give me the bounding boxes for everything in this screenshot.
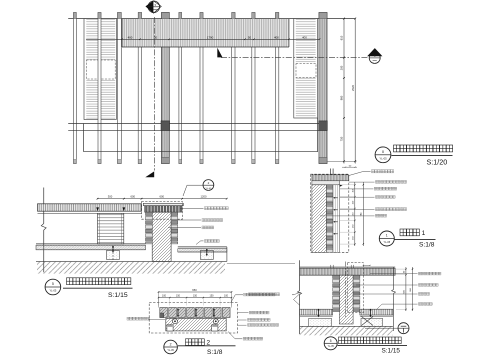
detail3 label right eluan <box>377 304 418 309</box>
svg-text:600: 600 <box>131 195 136 199</box>
elevation title bubble <box>45 279 61 295</box>
svg-text:0: 0 <box>382 149 385 154</box>
plan section marker top diamond <box>148 1 160 13</box>
detail1 wood cladding <box>333 185 340 253</box>
detail2 bolt left <box>173 319 178 324</box>
svg-text:600: 600 <box>160 195 165 199</box>
elevation leader eluan mudiping <box>196 241 204 245</box>
detail3 top line <box>300 266 396 268</box>
detail3 platform left <box>300 309 333 315</box>
detail1 label screw top <box>349 181 375 183</box>
elevation bedding bottom line <box>36 260 227 262</box>
elevation title text <box>67 278 131 285</box>
plan rafter 3 <box>138 13 141 164</box>
svg-text:S:1/15: S:1/15 <box>108 292 128 299</box>
plan horizontal line lower <box>68 129 327 131</box>
svg-text:YL-05: YL-05 <box>379 156 387 160</box>
svg-text:1200: 1200 <box>201 195 207 199</box>
plan rafter 1 <box>74 13 77 164</box>
plan bench left <box>84 19 116 120</box>
detail2 seat slats <box>160 308 168 318</box>
plan post square center <box>161 121 170 131</box>
elevation platform right top <box>178 246 227 248</box>
elevation column brick left <box>146 212 153 244</box>
plan title bubble <box>375 147 391 163</box>
detail1 nail ticks top <box>330 169 332 175</box>
detail3 platform arrows <box>318 310 320 316</box>
plan rafter 10 thick right <box>319 13 327 164</box>
svg-text:S:1/8: S:1/8 <box>419 242 435 249</box>
svg-text:600: 600 <box>404 289 406 293</box>
detail3 dashed callout box <box>347 263 363 313</box>
plan rafter 2 bench edge <box>98 13 101 164</box>
svg-text:YL-05: YL-05 <box>167 349 174 352</box>
svg-text:150: 150 <box>353 224 355 228</box>
detail2 title text <box>186 339 205 346</box>
plan right dimension line outer <box>354 19 356 164</box>
detail2 title underline <box>178 345 236 347</box>
detail1 brick stack <box>326 185 333 253</box>
detail3 right dim inner <box>405 267 407 311</box>
detail1 label zhuanzhu <box>320 215 375 217</box>
label fangfumu top right <box>348 172 371 176</box>
elevation platform right edge <box>226 247 228 262</box>
detail3 label right zhuanzhu <box>354 293 418 295</box>
plan rafter 4 thick center <box>162 13 170 164</box>
svg-text:YL-05: YL-05 <box>205 188 212 190</box>
plan horizontal line upper <box>68 123 327 125</box>
svg-text:YL-05: YL-05 <box>328 346 335 348</box>
elevation footing right <box>200 251 213 260</box>
detail1 title text <box>400 229 419 236</box>
elevation capital dentil band <box>145 206 182 212</box>
plan band dimension line <box>86 38 320 40</box>
plan post square right <box>319 121 328 131</box>
detail2 label right screw bottom <box>238 324 247 326</box>
svg-text:2: 2 <box>208 181 210 185</box>
plan section flag bottom <box>145 171 154 177</box>
elevation capital top plate <box>143 203 183 205</box>
plan section flag left <box>217 48 222 58</box>
svg-text:1: 1 <box>386 234 388 238</box>
detail2 left end block <box>160 313 164 318</box>
detail2 label right jiaonianji2 <box>238 319 247 321</box>
detail2 label left jiaonianji <box>127 317 150 320</box>
detail2 dashed box <box>149 303 237 333</box>
svg-text:YL-05: YL-05 <box>383 241 390 244</box>
detail1 label 60x60 <box>340 196 375 198</box>
svg-text:1: 1 <box>422 230 426 237</box>
detail2 label right fangfumu <box>238 312 249 314</box>
detail3 title bubble <box>324 337 337 350</box>
detail1 label screw bottom <box>340 208 375 210</box>
detail2 label right screw top <box>231 295 244 303</box>
detail2 bolt right <box>213 319 218 324</box>
detail3 nail ticks <box>330 265 332 268</box>
svg-text:5: 5 <box>330 339 332 343</box>
svg-text:660: 660 <box>410 287 412 291</box>
detail2 slat screws arrows <box>177 310 179 316</box>
svg-text:150: 150 <box>353 200 355 204</box>
plan beam band hatched <box>122 19 289 47</box>
detail3 label right fangfumu <box>370 273 418 275</box>
detail2 label right 60x60 <box>228 332 242 339</box>
detail2 support block left <box>167 325 173 331</box>
plan title text <box>394 145 453 152</box>
detail3 left bracket <box>294 294 301 300</box>
plan section marker right <box>369 52 380 63</box>
plan dim extension bottom <box>328 160 357 162</box>
detail3 cross mark <box>362 317 374 326</box>
plan rafter 6 <box>200 13 203 164</box>
detail3 title text <box>339 337 402 344</box>
detail3 footing left <box>309 318 332 326</box>
detail3 left labels screw1 <box>292 292 301 295</box>
svg-text:300: 300 <box>108 195 113 199</box>
elevation paving top line <box>36 243 146 245</box>
detail2 segment dims <box>159 297 232 299</box>
elevation bench leg ladder <box>98 213 124 244</box>
elevation footing left arrow <box>112 246 114 261</box>
svg-text:YL-05: YL-05 <box>49 288 56 292</box>
plan platform outline <box>83 124 85 152</box>
detail2 beam <box>166 318 226 331</box>
svg-text:50: 50 <box>248 35 252 39</box>
svg-text:400: 400 <box>302 35 307 39</box>
svg-text:5: 5 <box>52 282 54 286</box>
detail3 earth hatch <box>300 325 393 327</box>
svg-text:400: 400 <box>274 35 279 39</box>
detail2 title bubble <box>164 340 178 354</box>
elevation earth hatch <box>37 262 225 274</box>
svg-text:60: 60 <box>404 270 406 273</box>
svg-text:2: 2 <box>170 342 172 346</box>
detail1 dim line outer <box>362 182 364 246</box>
detail3 column brick left <box>333 275 340 311</box>
detail3 center axis line <box>345 262 347 318</box>
plan top edge line <box>68 18 355 20</box>
elevation bench band lower line <box>38 212 142 214</box>
svg-text:150: 150 <box>176 295 181 298</box>
detail1 title bubble <box>379 231 394 246</box>
plan title underline <box>392 154 453 156</box>
detail3 left edge line <box>299 260 301 290</box>
elevation column brick right <box>171 212 178 244</box>
elevation paving layer bottom line <box>36 249 146 251</box>
detail1 dim line inner <box>354 182 356 246</box>
detail1 top small dim <box>342 166 357 168</box>
elevation footing left <box>106 251 119 260</box>
svg-text:400: 400 <box>128 35 133 39</box>
detail3 beam band <box>300 268 396 275</box>
detail3 platform right <box>360 309 393 315</box>
detail1 label white glue <box>340 188 373 190</box>
elevation detail-2 marker bubble <box>203 180 214 191</box>
svg-text:S:1/8: S:1/8 <box>207 349 223 356</box>
svg-text:150: 150 <box>353 235 355 239</box>
elevation ground line right <box>227 262 295 264</box>
detail2 overall dim 650 <box>159 291 232 293</box>
elevation bench slat band <box>38 204 142 211</box>
elevation paving layer <box>36 245 146 250</box>
detail1 dashed box <box>311 174 349 252</box>
svg-text:S:1/20: S:1/20 <box>427 157 448 166</box>
plan rafter 4b bench right edge <box>118 13 122 164</box>
svg-text:150: 150 <box>353 212 355 216</box>
elevation title underline <box>63 287 133 289</box>
detail3 column core <box>339 275 353 324</box>
svg-text:610: 610 <box>340 35 344 40</box>
detail3 small dim top <box>363 264 370 266</box>
plan rafter 9 <box>276 13 279 164</box>
detail1 title underline <box>395 238 436 240</box>
detail3 footing right <box>361 318 383 326</box>
svg-text:1790: 1790 <box>207 35 214 39</box>
detail3 column brick right <box>353 275 360 311</box>
detail1 top beam band <box>312 175 349 181</box>
elevation dim arrowheads under band <box>96 207 99 211</box>
detail3 band bottom line <box>300 274 396 276</box>
detail3 right break line <box>393 267 395 289</box>
elevation left edge line <box>43 188 45 224</box>
elevation dimension line <box>98 198 227 200</box>
svg-text:100: 100 <box>162 295 167 298</box>
elevation leader zhuanzhu jiceng <box>168 226 201 228</box>
elevation leader 110x60 fangfumu <box>180 207 204 209</box>
elevation leader 60x60 fangfumu <box>172 219 201 221</box>
plan bench right <box>294 19 318 118</box>
plan center section line <box>154 17 156 171</box>
svg-text:150: 150 <box>210 295 215 298</box>
elevation platform right layer <box>178 249 227 252</box>
plan bench left dashed callout <box>86 60 115 79</box>
svg-text:2520: 2520 <box>351 85 355 91</box>
plan bench right dashed callout <box>296 64 316 78</box>
svg-text:750: 750 <box>340 136 344 141</box>
plan rafter 8 <box>252 13 255 164</box>
svg-text:960: 960 <box>340 95 344 100</box>
plan rafter 7 <box>232 13 235 164</box>
svg-text:100: 100 <box>224 295 229 298</box>
detail3 label right 60x60 <box>356 284 418 286</box>
plan horizontal section line <box>221 57 368 59</box>
svg-text:150: 150 <box>193 295 198 298</box>
detail3 right dim outer <box>412 267 414 311</box>
detail3 axis bubble <box>365 327 398 329</box>
elevation column core <box>152 212 171 261</box>
detail1 screws <box>334 197 338 199</box>
svg-text:650: 650 <box>192 288 197 292</box>
plan rafter 5 <box>179 13 182 164</box>
detail1 column core hatch <box>312 185 327 253</box>
svg-text:S:1/15: S:1/15 <box>382 348 401 355</box>
svg-text:200: 200 <box>340 65 344 70</box>
plan right dimension line inner <box>343 19 345 164</box>
detail1 seat strip <box>312 181 340 185</box>
detail3 title underline <box>338 344 408 346</box>
detail2 support block right <box>212 325 218 331</box>
elevation platform layer bottom line <box>178 251 227 253</box>
elevation capital dashed callout box <box>142 202 183 220</box>
